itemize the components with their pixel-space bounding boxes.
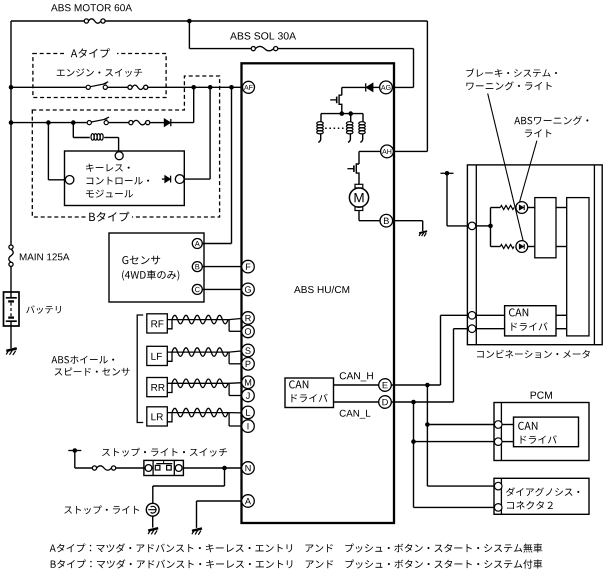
wire ABS SOL drop — [188, 21, 190, 49]
pin D — [379, 396, 392, 409]
pin N — [242, 462, 255, 475]
fuse stop light — [92, 466, 115, 470]
block meter lamp driver — [535, 198, 556, 258]
pin AH — [381, 145, 394, 158]
wire B+ rail to AH feed — [105, 20, 428, 22]
node battery rail / row2 — [9, 120, 14, 125]
pin diagnosis CAN_H — [494, 482, 502, 490]
wire CAN_H to PCM — [427, 424, 494, 426]
pin A — [242, 495, 255, 508]
label CAN_H — [340, 372, 373, 381]
label battery — [26, 305, 61, 313]
wire keyless internal diode stub — [162, 178, 165, 180]
wire CAN_L bus from pin D — [391, 401, 453, 403]
ground battery — [6, 348, 17, 355]
wire down to keyless top pin — [118, 138, 120, 152]
wire battery main to battery — [10, 266, 12, 292]
module G sensor box — [109, 233, 204, 302]
pin G — [242, 283, 255, 296]
wire FET2 drain — [358, 151, 360, 164]
wire into keyless left pin — [48, 179, 65, 181]
pin E — [379, 379, 392, 392]
pin G sensor C — [192, 284, 202, 294]
pin G sensor A — [192, 239, 202, 249]
pin P — [242, 358, 255, 371]
wire pin B ground drop — [422, 221, 424, 232]
wire PCM pin to CAN driver H — [502, 424, 514, 426]
pin diagnosis CAN_L — [494, 504, 502, 512]
pin F — [242, 260, 255, 273]
sensor LR wheel speed — [147, 407, 242, 426]
note B-type — [51, 559, 543, 568]
node IG / G sensor feed — [229, 85, 234, 90]
transistor FET1 solenoid driver — [330, 95, 342, 113]
wire CAN driver to MCU L — [556, 328, 567, 330]
switch keyless power (contact) — [87, 117, 109, 125]
sensor RR wheel speed — [147, 378, 242, 397]
terminal battery feed meter — [441, 171, 454, 176]
wire CAN_L to PCM — [414, 441, 495, 443]
transistor FET2 pump motor driver — [347, 164, 359, 184]
wire CAN_H bus up — [440, 315, 442, 385]
node CAN_H branch — [425, 383, 430, 388]
module PCM box — [494, 403, 589, 461]
dotted continuation between solenoid coils — [325, 127, 346, 129]
wire CAN_H bus from pin E — [391, 384, 440, 386]
label CAN (meter) — [509, 308, 528, 316]
node battery rail / IG row — [9, 85, 14, 90]
wire ABS MOTOR feed down to AH — [426, 21, 428, 151]
pin PCM CAN_H — [494, 421, 502, 429]
wire CAN_L bus up — [453, 329, 455, 402]
label CAN driver (PCM) — [521, 435, 557, 444]
pin B — [380, 214, 393, 227]
ground ABS HU/CM pin A — [192, 528, 202, 534]
pin I — [242, 420, 255, 433]
pin AG — [380, 81, 393, 94]
module CAN driver ABS box — [285, 378, 334, 408]
wire ABS SOL right — [278, 48, 414, 50]
wire PCM pin to CAN driver L — [502, 441, 514, 443]
wire meter pin to CAN driver H — [476, 314, 505, 316]
wire fuse to stoplight switch — [116, 467, 144, 469]
wire diode to FET1 drain — [342, 86, 366, 88]
diode row2 (anode left) — [164, 119, 170, 126]
pin L — [242, 406, 255, 419]
wire down to stop light — [152, 486, 154, 503]
solenoid coil 3 — [359, 114, 366, 143]
module diagnosis connector 2 box — [494, 478, 589, 514]
boundary B-type dashed box — [32, 76, 219, 217]
wire CAN_H to pin E — [334, 384, 380, 386]
wire switch to pin N — [183, 467, 242, 469]
node CAN_L / PCM — [411, 439, 416, 444]
wire CAN_H bus to meter — [441, 314, 469, 316]
pin meter CAN_H — [468, 312, 476, 320]
wire G sensor B to pin F — [202, 266, 242, 268]
pin M — [242, 376, 255, 389]
pin AF — [243, 81, 255, 93]
pin S — [242, 344, 255, 357]
battery dashed cells — [10, 303, 12, 317]
wire pin A ground drop — [196, 501, 198, 528]
wire keyless feed up to IG row — [209, 87, 211, 179]
terminal battery feed stop light — [68, 448, 81, 453]
wire stoplight feed drop — [74, 451, 76, 469]
wire row2 to diode — [150, 122, 165, 124]
pin G sensor B — [192, 262, 202, 272]
label ABS HU/CM — [294, 286, 349, 293]
wire to pin B — [359, 220, 380, 222]
wire to resistor ABS lamp — [491, 207, 501, 209]
label brake system warning line2 — [466, 81, 551, 90]
solenoid coil 2 — [346, 114, 353, 143]
label G sensor — [122, 256, 160, 265]
wire CAN_L bus to meter — [454, 328, 469, 330]
label CAN_L — [340, 410, 371, 419]
wire CAN driver to MCU H — [556, 314, 567, 316]
inductor keyless relay coil — [91, 134, 103, 141]
label 4WD only — [122, 270, 179, 281]
battery plate long — [6, 320, 17, 322]
wire ABS SOL left — [189, 48, 251, 50]
wire to resistor brake lamp — [491, 246, 501, 248]
wire into pin AH — [394, 150, 428, 152]
ground pump motor — [419, 231, 427, 236]
wire CAN_H to diagnosis connector — [427, 485, 494, 487]
wire to stoplight fuse — [75, 467, 93, 469]
wire FET1 drain — [341, 87, 343, 95]
wire to coil — [73, 137, 90, 139]
switch stop light switch — [144, 460, 184, 475]
lamp ABS warning (LED) — [516, 202, 528, 214]
diode keyless output — [165, 176, 170, 183]
wire into pin AG — [392, 86, 413, 88]
pin keyless top — [115, 152, 123, 160]
pin keyless right — [175, 175, 184, 184]
lamp stop light — [146, 503, 159, 516]
fuse ABS MOTOR 60A — [84, 19, 105, 23]
wire ABS SOL down to AG — [413, 49, 415, 88]
switch engine switch (contact) — [86, 82, 108, 90]
wire IG row left — [11, 86, 86, 88]
battery plate short — [8, 316, 14, 318]
label ABS wheel line1 — [51, 356, 114, 364]
wire row2 left — [11, 122, 87, 124]
wire keyless right pin out — [184, 178, 210, 180]
label keyless line1 — [86, 164, 130, 172]
bracket wheel speed sensor group — [137, 315, 143, 423]
node IG / keyless feed — [208, 85, 213, 90]
label ABS wheel line2 — [55, 368, 130, 376]
label ABS SOL 30A — [230, 32, 296, 39]
pin PCM CAN_L — [494, 438, 502, 446]
wire B+ rail top left segment — [11, 20, 84, 22]
label CAN driver (meter) — [511, 322, 547, 331]
sensor LF wheel speed — [147, 346, 242, 365]
module ABS HU/CM box — [242, 63, 395, 523]
wire lamp branch vertical — [490, 208, 492, 247]
wire pin A to ground — [197, 500, 243, 502]
module CAN driver meter box — [505, 306, 556, 336]
wire row2 to IG join — [171, 122, 194, 124]
wire AH to FET2 — [359, 150, 381, 152]
label ABS warning line1 — [514, 116, 588, 125]
battery plate + long — [6, 297, 17, 299]
diode solenoid cathode bar — [365, 83, 367, 91]
wire CAN_L bus down — [413, 402, 415, 507]
note A-type — [50, 543, 543, 552]
pin meter lamp feed — [468, 222, 476, 230]
wire G sensor A out — [202, 243, 231, 245]
wire meter feed drop — [446, 173, 448, 226]
block meter MCU — [567, 198, 589, 336]
wire motor to pin B — [358, 211, 360, 221]
wire pin B out to ground — [393, 220, 423, 222]
module keyless control module box — [65, 151, 185, 206]
wire meter pin to lamp node — [476, 225, 491, 227]
wire solenoid bus — [321, 113, 363, 115]
fuse ABS SOL 30A — [251, 46, 278, 50]
pin J — [242, 389, 255, 402]
node row2 / relay coil drop — [71, 120, 76, 125]
wire battery main vertical — [10, 21, 12, 245]
ground stop light — [148, 528, 158, 534]
label A-type — [71, 48, 110, 58]
pin meter CAN_L — [468, 325, 476, 333]
label ABS MOTOR 60A — [51, 4, 132, 11]
module CAN driver PCM box — [514, 417, 579, 447]
node FET1 source / bus — [340, 111, 345, 116]
wire drop to coil — [72, 123, 74, 138]
wire drop to keyless module left pin — [47, 123, 49, 180]
wire IG row to pin AF — [148, 86, 243, 88]
fuse keyless circuit — [129, 120, 150, 124]
label ABS warning line2 — [525, 129, 552, 137]
pin R — [242, 312, 255, 325]
wire CAN_L to pin D — [334, 401, 380, 403]
wire row2 mid — [108, 122, 129, 124]
label CAN (PCM) — [518, 422, 537, 430]
label CAN (ABS) — [289, 380, 308, 388]
resistor brake warning lamp — [500, 245, 514, 249]
label B-type — [89, 212, 129, 222]
wire row2 up to IG row — [193, 87, 195, 122]
label diagnosis line2 — [507, 501, 553, 510]
sensor RF wheel speed — [147, 314, 242, 333]
diode solenoid supply (points left) — [366, 83, 373, 91]
label brake system warning line1 — [466, 68, 557, 77]
battery outer box — [4, 292, 20, 326]
fuse engine switch circuit — [128, 85, 148, 89]
module combination meter box — [467, 165, 602, 345]
wire coil to keyless top pin — [104, 137, 118, 139]
node stop light branch — [222, 466, 227, 471]
wire brake lamp to driver block — [528, 246, 535, 248]
wire G sensor feed up to IG row — [231, 87, 233, 243]
node CAN_H / PCM — [425, 422, 430, 427]
label diagnosis line1 — [506, 487, 579, 496]
pin O — [242, 325, 255, 338]
node CAN_L branch — [411, 400, 416, 405]
resistor ABS warning lamp — [500, 206, 514, 210]
wire into meter pin — [447, 225, 468, 227]
solenoid coil 1 — [317, 114, 324, 143]
node row2 / keyless left pin drop — [46, 120, 51, 125]
node bus / coil2 — [348, 111, 353, 116]
label MAIN 125A — [20, 253, 70, 260]
diode keyless cathode bar — [170, 176, 172, 183]
wire AG to diode — [373, 86, 380, 88]
wire stop light to ground — [152, 516, 154, 528]
wire IG row mid — [107, 86, 128, 88]
label CAN driver (ABS) — [291, 394, 327, 403]
wire ABS lamp to driver block — [528, 207, 535, 209]
wire G sensor C to pin G — [202, 288, 242, 290]
boundary A-type dashed box — [33, 54, 166, 98]
wire driver to meter MCU 2 — [556, 246, 567, 248]
leader ABS warning light — [519, 141, 537, 205]
node B+ / ABS SOL branch — [187, 19, 192, 24]
wire battery to ground — [10, 321, 12, 348]
battery plate - short — [8, 300, 14, 302]
wire battery top stub — [10, 292, 12, 298]
leader brake system warning light — [488, 94, 524, 242]
label engine switch — [57, 69, 142, 77]
pin keyless left — [65, 176, 74, 185]
lamp brake system warning (LED) — [516, 241, 528, 253]
node lamp branch — [488, 224, 493, 229]
wire meter pin to CAN driver L — [476, 328, 505, 330]
wire CAN_H bus down — [426, 385, 428, 486]
label PCM — [531, 391, 552, 398]
label keyless line2 — [87, 177, 150, 185]
wire stoplight branch down — [224, 468, 226, 486]
fuse MAIN 125A — [9, 245, 13, 266]
label stop light — [64, 505, 139, 514]
node IG / row2 join — [191, 85, 196, 90]
label keyless line3 — [86, 190, 133, 198]
wire stoplight branch left — [153, 485, 225, 487]
wire driver to meter MCU 1 — [556, 207, 567, 209]
motor M pump motor — [349, 184, 368, 210]
label stop light switch — [102, 448, 227, 457]
label combination meter — [477, 350, 590, 358]
diode row2 cathode bar — [170, 119, 172, 126]
wire CAN_L to diagnosis connector — [414, 506, 495, 508]
